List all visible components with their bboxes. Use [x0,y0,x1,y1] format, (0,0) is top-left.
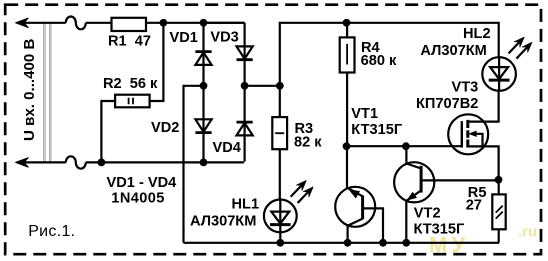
svg-text:680 к: 680 к [361,53,397,69]
wire: top rail from R1 to VD3 branch [146,22,245,24]
wire: R3 column up to top-right rail [280,23,499,117]
svg-text:HL1: HL1 [232,197,260,213]
resistor R5 [498,180,500,195]
node dot (R3 column tap) [276,82,284,90]
node dot (VD1/VD2 midpoint) [200,82,208,90]
node dot (HL1 cathode on DC rail) [276,239,284,247]
wire: DC bottom rail [184,242,500,244]
wire: R2 right lead to top rail [150,23,164,101]
transistor VT1 [335,146,383,243]
svg-text:R2 56 к: R2 56 к [103,76,158,92]
HL2 light arrows [509,37,532,58]
wire: bridge mid-right link to R3 column [245,85,280,87]
svg-text:VD4: VD4 [213,140,242,156]
svg-text:АЛ307КМ: АЛ307КМ [190,214,256,230]
svg-text:1N4005: 1N4005 [111,190,165,206]
svg-text:VD1: VD1 [170,30,198,46]
node dot (R4 tap on top rail) [343,19,351,27]
svg-text:VD1 - VD4: VD1 - VD4 [107,175,178,191]
LED HL1 [264,200,297,243]
node dot (R2 tap) [160,19,168,27]
wire: R4 top lead [346,23,348,38]
node dot (VD1 branch) [200,19,208,27]
wire: bottom AC rail with break squiggle [20,161,244,163]
svg-text:КТ315Г: КТ315Г [414,222,465,238]
diode VD3 [237,23,253,86]
arrow (top-left terminal) [16,18,29,27]
svg-text:VT1: VT1 [351,106,378,122]
probe wires (gray double line) [43,24,45,163]
svg-text:82 к: 82 к [294,134,322,150]
node dot (R2 left lead joins AC rail) [98,159,106,167]
MOSFET VT3 [448,91,498,180]
wire: bridge mid-left node to DC rail (crosses AC rail) [184,86,204,243]
node dot (VD2 cathode joins AC rail) [200,159,208,167]
svg-text:АЛ307КМ: АЛ307КМ [420,43,486,59]
node dot (VT3 source / VT2 base / R5 junction) [495,176,503,184]
transistor VT2 [394,146,498,243]
diode VD4 [237,86,253,162]
wire: R3 bottom lead to HL1 [279,149,281,199]
arrow (bottom-left terminal) [16,158,29,167]
diode VD2 [195,86,211,163]
node dot (VT1 collector on DC rail) [344,239,352,247]
diode VD1 [195,23,211,86]
resistor R3 [272,117,287,149]
svg-text:27: 27 [466,198,482,214]
svg-text:U вх. 0...400 В: U вх. 0...400 В [21,38,38,141]
node dot (VT2 emitter on DC rail) [402,239,410,247]
svg-text:R1 47: R1 47 [108,34,151,50]
wire: R2 left lead to bottom rail [101,101,115,162]
resistor R4 [340,37,355,72]
resistor R1 [112,18,147,31]
svg-text:VD2: VD2 [151,120,179,136]
svg-text:КТ315Г: КТ315Г [351,122,402,138]
svg-text:.ru: .ru [518,223,537,240]
node dot (VD3/VD4 midpoint) [241,82,249,90]
svg-text:VD3: VD3 [210,30,238,46]
wire: top rail turns down into VD3 [204,22,245,24]
node dot (VT2 collector tap) [402,142,410,150]
wire: R4 bottom lead to gate rail [346,73,348,147]
node dot (VT1 base lead on DC rail) [379,239,387,247]
svg-text:КП707В2: КП707В2 [416,96,478,112]
wire: R5 bottom lead to DC rail [498,229,500,243]
LED HL2 [482,57,516,91]
svg-text:VT3: VT3 [452,79,479,95]
svg-text:HL2: HL2 [463,26,491,42]
svg-text:Рис.1.: Рис.1. [28,223,75,240]
svg-text:VT2: VT2 [414,206,441,222]
wire: gate rail (R4 / VT1 emitter / VT2 collector / VT3 gate) [346,145,462,147]
node dot (VT1 emitter tap) [343,142,351,150]
HL1 light arrows [291,181,313,203]
wire: top rail left with break squiggle [20,22,112,24]
